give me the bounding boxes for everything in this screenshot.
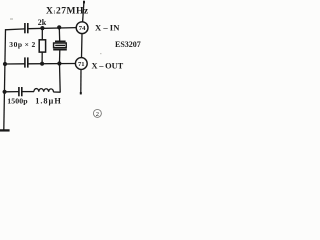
- node: top wire / crystal junction: [57, 25, 61, 29]
- figure callout circled 2: [93, 109, 101, 118]
- svg-text:30p × 2: 30p × 2: [9, 40, 36, 49]
- capacitor C3 1500p: [19, 87, 22, 96]
- wire: vertical from crystal node down to bottom wire: [59, 64, 62, 93]
- svg-text:1.8µH: 1.8µH: [35, 97, 62, 106]
- wire: pin 71 lead going down off-page: [80, 69, 82, 94]
- wire: top horizontal (left rail to C1): [5, 28, 25, 31]
- node: middle wire / crystal junction: [57, 61, 61, 65]
- svg-text:74: 74: [79, 25, 86, 32]
- svg-text:X – OUT: X – OUT: [92, 61, 124, 70]
- wire: middle horizontal (left rail to C2): [5, 63, 25, 65]
- wire: top horizontal (C1 to pin 74): [28, 28, 76, 29]
- inductor L1 1.8uH: [34, 89, 54, 92]
- node: top wire / R1 junction: [40, 26, 44, 30]
- wire: bottom horizontal (C3 to left rail): [4, 91, 18, 93]
- svg-text:ES3207: ES3207: [115, 40, 141, 49]
- wire: lead between pin 74 and pin 71: [81, 34, 84, 58]
- wire: bottom horizontal (corner to inductor): [53, 91, 60, 93]
- node: left rail / bottom wire: [3, 90, 7, 94]
- wire: bottom horizontal (inductor to C3): [22, 91, 34, 93]
- node: left rail / middle wire: [3, 62, 7, 66]
- ground: [0, 129, 10, 131]
- svg-text:1500p: 1500p: [7, 97, 28, 106]
- wire: pin 74 lead going up off-page: [83, 1, 84, 22]
- scan speck below ES3207: [100, 53, 102, 54]
- wire: left vertical rail: [4, 29, 6, 130]
- IC pin 71 (X-OUT): [75, 58, 87, 70]
- node: middle wire / R1 junction: [40, 62, 44, 66]
- svg-text:2: 2: [96, 111, 99, 118]
- resistor R1 2k: [39, 28, 45, 64]
- svg-text:71: 71: [78, 61, 85, 68]
- IC pin 74 (X-IN): [76, 22, 88, 34]
- scan speck near top left: [10, 18, 13, 20]
- capacitor C1 30p (top): [25, 23, 28, 33]
- svg-text:X – IN: X – IN: [95, 22, 120, 32]
- svg-text:2k: 2k: [38, 18, 47, 27]
- wire: middle horizontal (C2 to pin 71): [28, 63, 75, 65]
- crystal X1 27MHz: [53, 27, 67, 63]
- capacitor C2 30p (middle): [25, 57, 28, 67]
